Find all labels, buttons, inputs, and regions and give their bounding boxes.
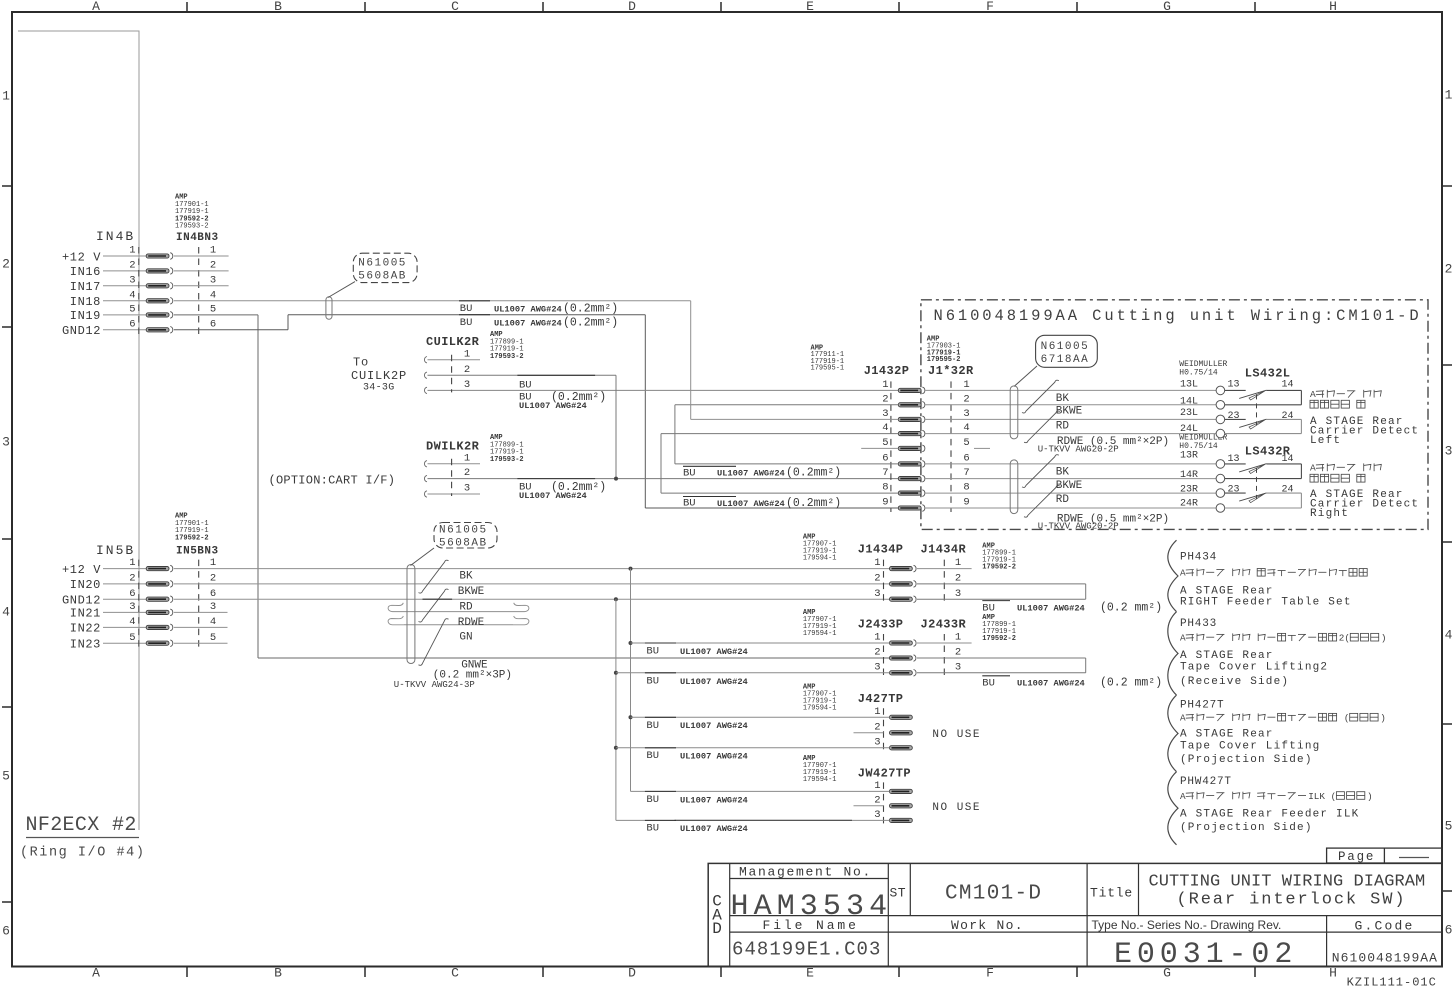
svg-text:RD: RD — [1056, 494, 1070, 506]
svg-text:UL1007 AWG#24: UL1007 AWG#24 — [494, 318, 562, 328]
connector IN4B body dashes — [138, 247, 140, 335]
svg-text:1: 1 — [1445, 88, 1453, 103]
wire J1432P pin5 stub — [861, 447, 898, 449]
svg-text:UL1007 AWG#24: UL1007 AWG#24 — [494, 304, 562, 314]
cable clamp oval IN5B cable — [407, 565, 415, 664]
svg-text:(0.2mm²): (0.2mm²) — [563, 302, 618, 315]
title block CAD column — [729, 863, 731, 966]
svg-text:3: 3 — [874, 661, 880, 673]
svg-text:IN4BN3: IN4BN3 — [176, 232, 219, 244]
svg-text:UL1007 AWG#24: UL1007 AWG#24 — [519, 401, 587, 411]
svg-text:1: 1 — [129, 245, 135, 257]
twisted pair marks left cable — [1022, 380, 1059, 413]
wire loop J1434R pins 2-3 to sensor PH434 — [917, 583, 1086, 585]
wire IN18 drop to J1432P pin3 — [690, 301, 692, 420]
wire GND bus end to JW427TP pin3 — [616, 819, 890, 821]
svg-text:UL1007 AWG#24: UL1007 AWG#24 — [1017, 679, 1085, 689]
svg-text:UL1007 AWG#24: UL1007 AWG#24 — [680, 677, 748, 687]
wire GND12 run — [174, 329, 288, 331]
svg-text:179593-2: 179593-2 — [490, 456, 524, 464]
svg-text:2: 2 — [129, 573, 135, 585]
wire label BU UL1007 AWG#24(0.2 mm2) at J1434R — [982, 600, 1010, 602]
wire J1432P pin4-pin8 jumper — [661, 433, 898, 435]
svg-text:(0.2 mm²): (0.2 mm²) — [1100, 677, 1162, 690]
svg-text:D: D — [712, 920, 722, 938]
svg-text:PH427T: PH427T — [1180, 700, 1224, 712]
connector IN4B contacts — [146, 254, 169, 258]
connector J427TP pin2 stub — [854, 732, 884, 734]
svg-text:Page: Page — [1338, 850, 1375, 864]
wire GNWE IN19 run to J2433P — [258, 657, 890, 659]
wires J1*32R to terminals — [926, 389, 1217, 391]
wire label BU UL1007 AWG#24(0.2mm2) first — [459, 300, 490, 302]
svg-text:H0.75/14: H0.75/14 — [1179, 368, 1218, 377]
svg-text:BU: BU — [683, 467, 696, 479]
svg-text:G: G — [1163, 0, 1171, 14]
wire J1434R pin1 stub — [917, 568, 972, 570]
wire +12V bus vertical — [630, 569, 632, 792]
svg-text:+12 V: +12 V — [62, 250, 101, 264]
svg-text:CUILK2R: CUILK2R — [426, 335, 480, 349]
svg-text:5: 5 — [129, 304, 135, 316]
svg-text:BU: BU — [460, 317, 473, 329]
svg-text:File Name: File Name — [763, 918, 859, 933]
svg-text:3: 3 — [874, 588, 880, 600]
switch LS432L contact 23-24 — [1225, 418, 1246, 420]
svg-text:GN: GN — [459, 632, 472, 644]
svg-text:ST: ST — [890, 886, 906, 901]
svg-text:BK: BK — [459, 571, 473, 583]
svg-text:5: 5 — [963, 437, 969, 449]
svg-text:6: 6 — [129, 318, 135, 330]
wire label BU (0.2mm2) UL1007 AWG#24 on DWILK2R pin2 — [517, 478, 595, 480]
cable clamp oval right switch cable — [1010, 460, 1018, 514]
balloon N61005 6718AA — [1036, 335, 1098, 367]
svg-text:A: A — [1180, 713, 1186, 724]
wire GND branch to J427TP pin3 — [614, 746, 618, 750]
wire +12V branch to J2433P pin1 — [629, 641, 633, 645]
svg-text:J1*32R: J1*32R — [928, 364, 974, 378]
svg-text:A: A — [1310, 389, 1316, 400]
svg-text:Management No.: Management No. — [739, 865, 872, 880]
node NF2ECX #2 block outline — [18, 31, 139, 830]
svg-text:BU: BU — [646, 794, 659, 806]
svg-text:B: B — [274, 966, 282, 981]
svg-text:ILK: ILK — [1308, 791, 1325, 802]
svg-text:To: To — [353, 355, 369, 369]
svg-text:3: 3 — [2, 435, 10, 450]
svg-text:F: F — [986, 0, 994, 14]
svg-text:E: E — [806, 0, 814, 14]
svg-text:Title: Title — [1090, 886, 1133, 901]
svg-text:3: 3 — [210, 601, 216, 613]
svg-text:Tape Cover Lifting2: Tape Cover Lifting2 — [1180, 662, 1328, 674]
wire RD GND12 run to J1434P — [174, 598, 890, 600]
svg-text:179595-1: 179595-1 — [811, 365, 845, 373]
svg-text:BU: BU — [646, 720, 659, 732]
svg-text:1: 1 — [874, 706, 880, 718]
svg-text:6: 6 — [129, 588, 135, 600]
wire label BU UL1007 AWG#24(0.2 mm2) at J2433R — [982, 675, 1010, 677]
connector J2433P body dashes — [883, 634, 885, 677]
svg-text:BK: BK — [1056, 466, 1070, 478]
svg-text:1: 1 — [955, 557, 961, 569]
connector CUILK2R pin stubs — [425, 357, 427, 363]
wire BKWE IN20 run to J1434P — [174, 583, 890, 585]
svg-text:2: 2 — [874, 794, 880, 806]
terminal circles left switch — [1216, 386, 1225, 395]
svg-text:BKWE: BKWE — [1056, 480, 1083, 492]
svg-text:3: 3 — [129, 601, 135, 613]
svg-text:CM101-D: CM101-D — [945, 883, 1042, 906]
svg-text:1: 1 — [2, 89, 10, 104]
svg-text:6: 6 — [882, 453, 888, 465]
wire BK +12V run to J1434P — [174, 568, 890, 570]
switch LS432R contact 13-14 — [1225, 463, 1246, 465]
svg-text:8: 8 — [882, 482, 888, 494]
svg-text:2: 2 — [874, 573, 880, 585]
frame tick marks — [186, 2, 188, 12]
svg-text:IN5BN3: IN5BN3 — [176, 546, 219, 558]
connector J427TP body dashes — [883, 708, 885, 752]
svg-text:1: 1 — [963, 379, 969, 391]
svg-text:G.Code: G.Code — [1355, 918, 1415, 933]
svg-text:4: 4 — [210, 616, 216, 628]
wire label BU UL1007 AWG#24 at J427TP pin3 — [645, 747, 676, 749]
svg-text:IN20: IN20 — [70, 578, 101, 592]
svg-text:N610048199AA Cutting unit Wiri: N610048199AA Cutting unit Wiring:CM101-D — [934, 307, 1422, 325]
brace PH434 — [1168, 540, 1178, 612]
svg-text:6: 6 — [1445, 923, 1453, 938]
svg-text:2: 2 — [210, 573, 216, 585]
svg-text:UL1007 AWG#24: UL1007 AWG#24 — [680, 647, 748, 657]
svg-text:IN18: IN18 — [70, 295, 101, 309]
svg-text:2: 2 — [464, 364, 470, 376]
wire +12V bus end to JW427TP pin1 — [631, 790, 890, 792]
wire GND12 to J1432P pin9 — [645, 507, 898, 509]
connector J1434P body dashes — [883, 560, 885, 604]
wire GND branch to J2433P pin3 — [614, 671, 618, 675]
svg-text:UL1007 AWG#24: UL1007 AWG#24 — [680, 795, 748, 805]
svg-text:9: 9 — [963, 497, 969, 509]
spare wire GN with end loops — [404, 624, 513, 626]
svg-text:BKWE: BKWE — [1056, 406, 1083, 418]
svg-text:A: A — [1180, 568, 1186, 579]
svg-text:A STAGE Rear: A STAGE Rear — [1180, 650, 1274, 662]
svg-text:1: 1 — [464, 452, 470, 464]
wire GND bus vertical — [615, 599, 617, 820]
svg-text:E: E — [806, 966, 814, 981]
svg-text:179594-1: 179594-1 — [803, 630, 837, 638]
connector JW427TP body dashes — [883, 782, 885, 824]
svg-text:179594-1: 179594-1 — [803, 555, 837, 563]
svg-text:BU: BU — [646, 676, 659, 688]
svg-text:2: 2 — [963, 393, 969, 405]
twisted pair marks right cable — [1022, 455, 1059, 488]
svg-text:C: C — [451, 966, 459, 981]
svg-text:14L: 14L — [1180, 397, 1198, 408]
svg-text:648199E1.C03: 648199E1.C03 — [732, 939, 881, 961]
svg-text:PH433: PH433 — [1180, 618, 1217, 630]
dashed boundary box N610048199AA cutting unit — [921, 300, 1428, 530]
svg-text:2: 2 — [955, 573, 961, 585]
svg-text:Tape Cover Lifting: Tape Cover Lifting — [1180, 741, 1320, 753]
wire loop J2433R pins 2-3 to sensor PH433 — [917, 657, 1086, 659]
balloon N61005 5608AB upper — [353, 253, 417, 282]
title block horizontal dividers — [730, 878, 889, 880]
cable conductor labels BK BKWE RD RDWE GN GNWE — [423, 598, 453, 600]
svg-text:3: 3 — [963, 408, 969, 420]
svg-text:8: 8 — [963, 482, 969, 494]
svg-text:179592-2: 179592-2 — [982, 564, 1016, 572]
svg-text:(Projection Side): (Projection Side) — [1180, 754, 1313, 766]
title block vertical dividers — [887, 863, 889, 966]
connector J1434P contacts — [890, 567, 913, 571]
svg-text:RDWE: RDWE — [458, 617, 485, 629]
svg-text:Work No.: Work No. — [951, 918, 1024, 933]
svg-text:J2433R: J2433R — [921, 617, 967, 631]
wire label BU UL1007 AWG#24(0.2mm2) at J1432P pin7 — [683, 465, 736, 467]
svg-text:4: 4 — [129, 289, 135, 301]
svg-text:B: B — [274, 0, 282, 14]
svg-text:H0.75/14: H0.75/14 — [1179, 442, 1218, 451]
svg-text:A: A — [1310, 463, 1316, 474]
svg-text:UL1007 AWG#24: UL1007 AWG#24 — [1017, 604, 1085, 614]
svg-text:5: 5 — [210, 304, 216, 316]
svg-text:Right: Right — [1310, 508, 1349, 520]
svg-text:A STAGE Rear: A STAGE Rear — [1180, 729, 1274, 741]
svg-text:3: 3 — [874, 809, 880, 821]
connector IN5B stub wires IN21 IN22 IN23 — [174, 611, 228, 613]
svg-text:NO USE: NO USE — [932, 729, 981, 741]
svg-text:3: 3 — [464, 379, 470, 391]
svg-text:3: 3 — [464, 483, 470, 495]
junction dot CUILK2R/DWILK2R pin2 — [614, 477, 618, 481]
svg-text:NF2ECX #2: NF2ECX #2 — [26, 814, 137, 837]
svg-text:(0.2mm²): (0.2mm²) — [786, 467, 841, 480]
svg-text:1: 1 — [874, 632, 880, 644]
svg-text:IN21: IN21 — [70, 607, 101, 621]
title block Page box — [1327, 848, 1442, 863]
wire label BU UL1007 AWG#24(0.2mm2) second — [459, 314, 490, 316]
svg-text:13L: 13L — [1180, 380, 1198, 391]
svg-text:23: 23 — [1227, 411, 1239, 422]
svg-text:2: 2 — [874, 721, 880, 733]
svg-text:14: 14 — [1281, 380, 1293, 391]
svg-text:IN17: IN17 — [70, 280, 101, 294]
svg-text:1: 1 — [874, 780, 880, 792]
svg-text:UL1007 AWG#24: UL1007 AWG#24 — [680, 721, 748, 731]
svg-text:24R: 24R — [1180, 499, 1198, 510]
svg-text:5: 5 — [1445, 819, 1453, 834]
svg-text:J1434P: J1434P — [858, 543, 904, 557]
svg-text:IN22: IN22 — [70, 622, 101, 636]
svg-text:BU: BU — [460, 303, 473, 315]
svg-text:LS432L: LS432L — [1245, 366, 1291, 380]
svg-text:7: 7 — [882, 467, 888, 479]
svg-text:J427TP: J427TP — [858, 692, 904, 706]
svg-text:3: 3 — [955, 661, 961, 673]
svg-text:IN16: IN16 — [70, 265, 101, 279]
svg-text:UL1007 AWG#24: UL1007 AWG#24 — [680, 824, 748, 834]
svg-text:1: 1 — [464, 348, 470, 360]
switch LS432L mechanical link — [1256, 394, 1258, 425]
svg-text:D: D — [628, 0, 636, 14]
svg-text:N61005: N61005 — [1041, 341, 1090, 353]
svg-text:): ) — [1381, 633, 1387, 644]
connector IN5B body dashes — [138, 560, 140, 649]
svg-text:3: 3 — [882, 408, 888, 420]
svg-text:BU: BU — [646, 646, 659, 658]
svg-text:BU: BU — [519, 379, 532, 391]
switch LS432R contact 23-24 — [1225, 492, 1246, 494]
svg-text:J1432P: J1432P — [864, 364, 910, 378]
junction dot +12V bus at J1434P pin1 — [629, 567, 633, 571]
svg-text:13R: 13R — [1180, 451, 1198, 462]
brace PH427T — [1168, 695, 1178, 772]
svg-text:BU: BU — [982, 602, 995, 614]
svg-text:PH434: PH434 — [1180, 552, 1217, 564]
svg-text:9: 9 — [882, 497, 888, 509]
svg-text:2: 2 — [2, 257, 10, 272]
svg-text:1: 1 — [210, 245, 216, 257]
twisted pair marks IN5B cable — [419, 560, 449, 593]
svg-text:(Rear interlock SW): (Rear interlock SW) — [1177, 891, 1407, 910]
svg-text:4: 4 — [129, 616, 135, 628]
wire J2433R pin1 stub — [917, 642, 972, 644]
svg-text:IN23: IN23 — [70, 638, 101, 652]
svg-text:(0.2mm²): (0.2mm²) — [563, 316, 618, 329]
svg-text:1: 1 — [129, 557, 135, 569]
svg-text:A: A — [1180, 633, 1186, 644]
wire CUILK2R pin3 to J1432P pin1 — [428, 389, 899, 391]
svg-text:N61005: N61005 — [439, 525, 488, 537]
svg-text:4: 4 — [2, 605, 10, 620]
svg-text:RIGHT Feeder Table Set: RIGHT Feeder Table Set — [1180, 597, 1352, 609]
svg-text:179592-2: 179592-2 — [982, 635, 1016, 643]
connector DWILK2R body dashes — [451, 459, 453, 496]
svg-text:BU: BU — [982, 677, 995, 689]
terminal circles right switch — [1216, 460, 1225, 469]
svg-text:3: 3 — [1445, 444, 1453, 459]
svg-text:BU: BU — [683, 498, 696, 510]
svg-text:2: 2 — [882, 393, 888, 405]
title block outline — [708, 863, 1442, 966]
svg-text:6: 6 — [210, 318, 216, 330]
svg-text:179592-2: 179592-2 — [175, 534, 209, 542]
svg-text:6: 6 — [2, 924, 10, 939]
svg-text:): ) — [1380, 713, 1386, 724]
svg-text:23: 23 — [1227, 484, 1239, 495]
svg-text:1: 1 — [874, 557, 880, 569]
connector JW427TP pin2 stub — [854, 805, 884, 807]
connector J1432P body dashes — [890, 381, 892, 512]
svg-text:BK: BK — [1056, 393, 1070, 405]
connector J2433P contacts — [890, 641, 913, 645]
connector J1434R separator dashes — [943, 560, 945, 604]
svg-text:4: 4 — [882, 422, 888, 434]
spare wire RDWE with end loops — [404, 611, 513, 613]
svg-text:5: 5 — [882, 437, 888, 449]
svg-text:J2433P: J2433P — [858, 617, 904, 631]
svg-text:5: 5 — [2, 769, 10, 784]
svg-text:D: D — [628, 966, 636, 981]
svg-text:GND12: GND12 — [62, 594, 101, 608]
connector IN4B separator dashes — [198, 247, 200, 335]
svg-text:RD: RD — [1056, 421, 1070, 433]
svg-text:6: 6 — [210, 588, 216, 600]
svg-text:2: 2 — [874, 647, 880, 659]
wire IN19 to GNWE — [174, 314, 258, 316]
brace PHW427T — [1168, 772, 1178, 845]
connector CUILK2R body dashes — [451, 355, 453, 393]
brace PH433 — [1168, 612, 1178, 695]
svg-text:GND12: GND12 — [62, 324, 101, 338]
svg-text:NO USE: NO USE — [932, 802, 981, 814]
wire label BU UL1007 AWG#24 at JW427TP pin3 — [645, 819, 676, 821]
svg-text:J1434R: J1434R — [921, 543, 967, 557]
svg-text:5608AB: 5608AB — [358, 270, 407, 282]
svg-text:): ) — [1367, 791, 1373, 802]
connector J427TP contacts — [890, 715, 913, 719]
svg-text:(: ( — [1331, 791, 1337, 802]
svg-text:BU: BU — [646, 823, 659, 835]
svg-text:+12 V: +12 V — [62, 563, 101, 577]
svg-text:Type No.- Series No.- Drawing: Type No.- Series No.- Drawing Rev. — [1092, 918, 1282, 932]
svg-text:RD: RD — [459, 602, 473, 614]
svg-text:3: 3 — [955, 588, 961, 600]
svg-text:2: 2 — [129, 260, 135, 272]
balloon N61005 5608AB lower — [434, 523, 497, 549]
svg-text:JW427TP: JW427TP — [858, 767, 911, 781]
connector J1*32R separator dashes — [950, 381, 952, 512]
svg-text:(Receive Side): (Receive Side) — [1180, 676, 1289, 688]
svg-text:KZIL111-01C: KZIL111-01C — [1347, 976, 1437, 986]
svg-text:3: 3 — [874, 736, 880, 748]
svg-text:UL1007 AWG#24: UL1007 AWG#24 — [717, 469, 785, 479]
svg-text:4: 4 — [210, 289, 216, 301]
wire label BU on CUILK2R pin2 — [517, 374, 595, 376]
wire DWILK2R pin2 to J1432P pin7 — [428, 478, 899, 480]
svg-text:6718AA: 6718AA — [1041, 354, 1090, 366]
connector IN5B pin wires left — [103, 568, 146, 570]
wire label BU UL1007 AWG#24 at J427TP pin1 — [645, 716, 676, 718]
svg-text:179593-2: 179593-2 — [175, 223, 209, 231]
svg-text:7: 7 — [963, 467, 969, 479]
svg-text:(Ring I/O #4): (Ring I/O #4) — [20, 845, 145, 860]
svg-text:DWILK2R: DWILK2R — [426, 439, 480, 453]
svg-text:4: 4 — [1445, 628, 1453, 643]
switch LS432R mechanical link — [1256, 468, 1258, 499]
svg-text:A: A — [92, 966, 100, 981]
svg-text:IN5B: IN5B — [96, 543, 135, 558]
svg-text:14R: 14R — [1180, 470, 1198, 481]
svg-text:5: 5 — [129, 632, 135, 644]
svg-text:UL1007 AWG#24: UL1007 AWG#24 — [717, 499, 785, 509]
connector DWILK2R pin stubs — [425, 461, 427, 467]
svg-text:3: 3 — [210, 274, 216, 286]
connector IN4B stub wires pins 1-3 — [174, 255, 229, 257]
svg-text:5: 5 — [210, 632, 216, 644]
switch LS432L contact 13-14 — [1225, 389, 1246, 391]
connector IN5B separator dashes — [198, 560, 200, 649]
svg-text:Left: Left — [1310, 435, 1341, 447]
svg-text:IN19: IN19 — [70, 309, 101, 323]
svg-text:CUTTING UNIT WIRING DIAGRAM: CUTTING UNIT WIRING DIAGRAM — [1149, 873, 1426, 892]
svg-text:1: 1 — [882, 379, 888, 391]
svg-text:179594-1: 179594-1 — [803, 705, 837, 713]
connector IN5B contacts — [146, 567, 169, 571]
